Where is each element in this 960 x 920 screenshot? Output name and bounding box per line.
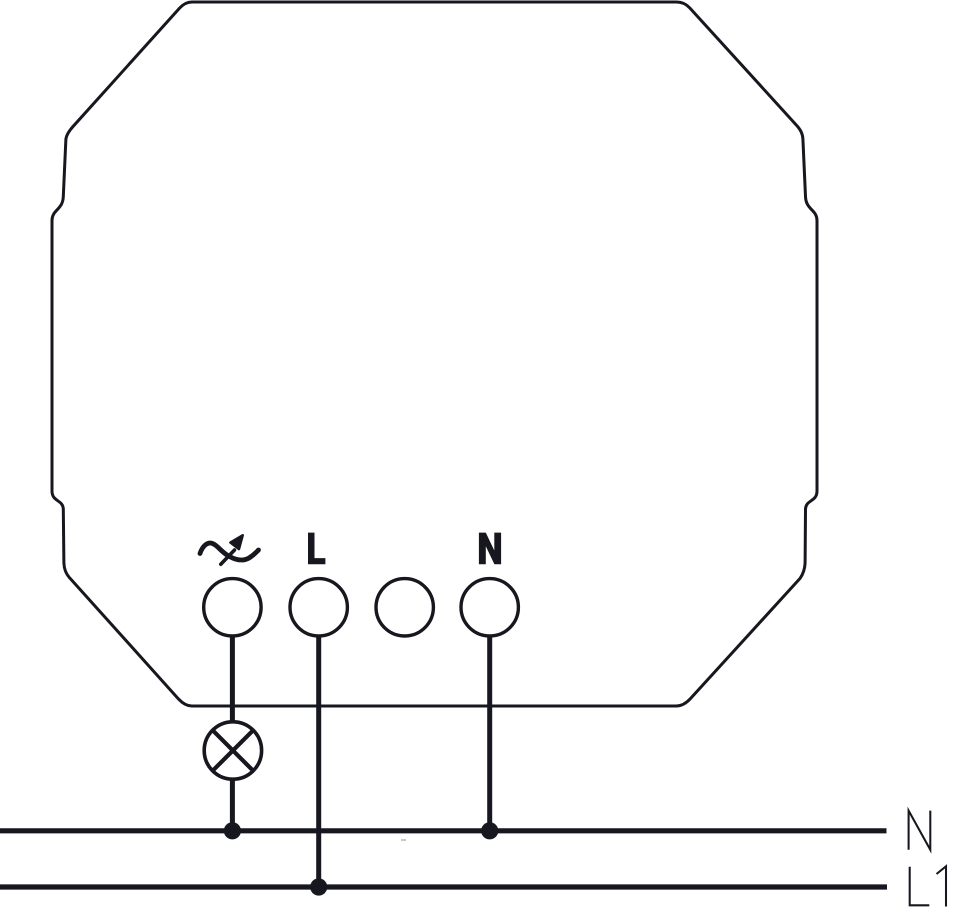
L1 bus line (0, 884, 887, 889)
terminal label L (bold) (308, 533, 325, 565)
wire lamp to N bus (230, 778, 235, 831)
terminal 3 (unused) (376, 579, 433, 636)
dimmer output symbol (tilde with arrow) (200, 535, 259, 564)
wire terminal4 (N) to N bus (487, 636, 492, 831)
junction dot (lamp / N bus) (224, 822, 241, 839)
terminal label N (bold) (479, 533, 501, 565)
terminal 1 (dimmed output) (204, 579, 261, 636)
terminal 2 (L) (290, 579, 347, 636)
junction dot (terminal4 / N bus) (481, 822, 498, 839)
wire terminal2 (L) to L1 bus (316, 636, 321, 887)
junction dot (terminal2 / L1 bus) (310, 878, 327, 895)
faint artifact dash (401, 839, 406, 841)
wire terminal1 to lamp (230, 636, 235, 723)
N bus line (0, 828, 887, 833)
net label L1 (910, 866, 946, 906)
net label N (909, 811, 931, 850)
terminal 4 (N) (461, 579, 518, 636)
flush-mount device box outline (52, 2, 817, 706)
lamp E1 (circle with X) (204, 722, 261, 779)
